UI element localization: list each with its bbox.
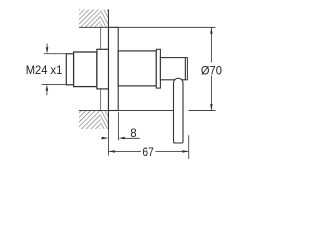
wall boundary line (plaster/tile) (100, 27, 102, 110)
67 left arrowhead (108, 150, 114, 153)
wall hatch top block (plaster, / hatch) (79, 10, 101, 28)
svg-text:M24 x1: M24 x1 (26, 63, 63, 77)
dia70 bottom extension line / wall bottom edge (79, 110, 173, 112)
dia70 dimension line lower segment (210, 76, 212, 111)
dia70 arrowhead up (210, 27, 213, 33)
wall hatch bottom block tile band (\ hatch) (101, 111, 109, 130)
ring at handle side (156, 49, 160, 88)
escutcheon (dia 70 rosette) (109, 27, 119, 110)
M24 threaded sleeve (66, 54, 73, 85)
wall hatch top block tile band (\ hatch) (101, 10, 109, 28)
svg-text:8: 8 (130, 128, 136, 140)
67 right arrowhead (182, 150, 188, 153)
svg-text:67: 67 (142, 145, 154, 159)
flush ring at wall (97, 49, 109, 89)
8 dimension right extension line (117, 112, 119, 140)
lever handle bar (174, 78, 184, 143)
svg-text:Ø70: Ø70 (201, 63, 222, 77)
main body cylinder (118, 51, 156, 86)
M24 bottom arrow tail (46, 90, 48, 95)
dia70 top extension line / wall top edge (79, 26, 216, 28)
M24 bottom arrowhead (up) (46, 84, 49, 90)
M24 bottom extension line (42, 83, 67, 85)
handle hub cylinder (160, 58, 185, 80)
wall face extension line (below) (107, 129, 109, 156)
connection body section (74, 52, 97, 87)
67 right extension line (188, 135, 190, 159)
M24 top arrowhead (down) (46, 47, 49, 53)
M24 dimension: top arrow line (46, 44, 48, 49)
dia70 arrowhead down (210, 104, 213, 110)
dia70 dimension line upper segment (210, 27, 212, 62)
67 dimension line right segment (156, 150, 189, 152)
hub end cap (185, 58, 187, 80)
8 dimension right arrow (outside, pointing left) with tail (118, 137, 124, 140)
8 dimension left arrow (outside, pointing right) (101, 137, 103, 139)
67 dimension line left segment (108, 150, 141, 152)
wall face line (107, 10, 109, 130)
wall hatch bottom block (plaster, / hatch) (79, 111, 101, 130)
M24 top extension line (44, 53, 67, 55)
